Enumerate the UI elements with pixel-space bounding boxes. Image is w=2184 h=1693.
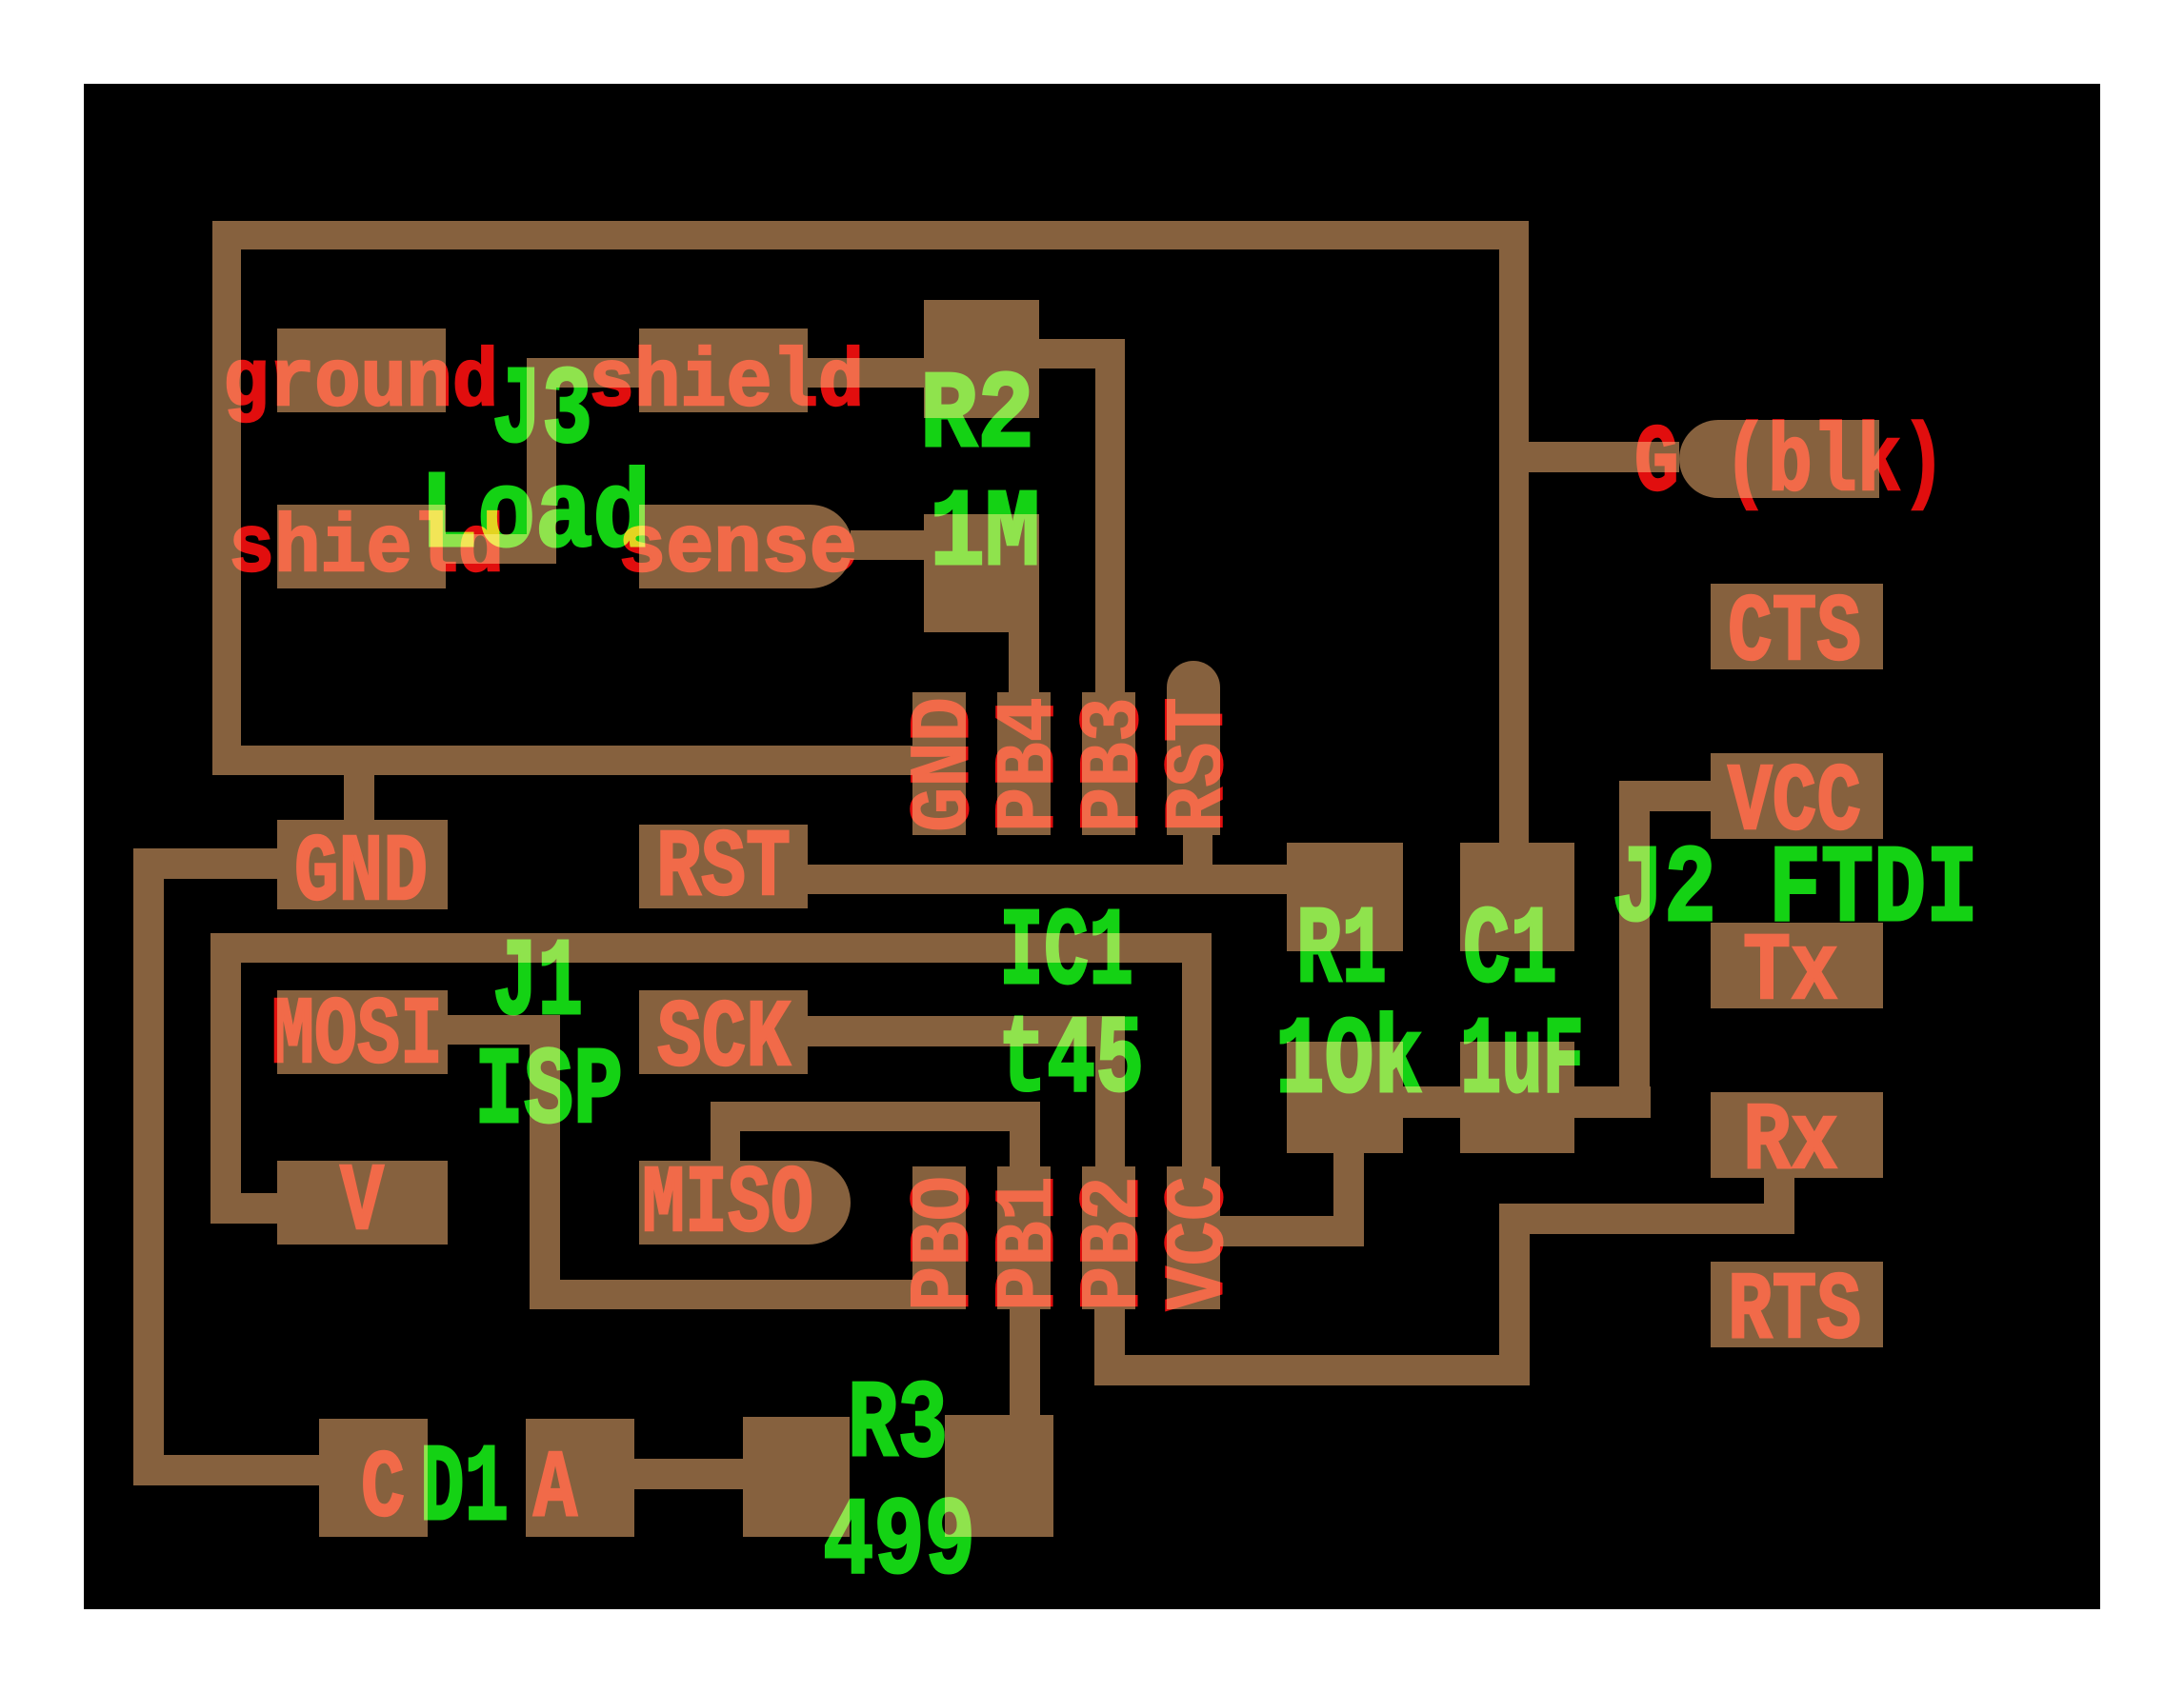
wire stub to J2 G pad [1529,442,1679,472]
svg-text:RTS: RTS [1728,1259,1861,1366]
pad J2 CTS [1711,584,1883,669]
wire PB2-Rx lower horizontal [1125,1355,1530,1385]
svg-text:R1: R1 [1296,889,1387,1014]
wire stub to J1 V pad [241,1193,277,1224]
pad J2 G (rounded left end) [1679,420,1879,498]
svg-text:Rx: Rx [1743,1089,1838,1197]
wire stub into J2 Rx pad [1764,1178,1794,1204]
wire V net horizontal [241,933,1212,963]
pad J1 V [277,1161,448,1245]
pad R3 right [945,1415,1053,1537]
pad J2 Rx [1711,1092,1883,1178]
pad J3 shield bottom [277,505,446,588]
svg-text:shield: shield [589,337,864,429]
wire stub MISO pad up [711,1131,740,1161]
pad J1 MOSI [277,990,448,1074]
wire MISO horizontal [711,1102,1040,1131]
wire stub GND bus to J1 GND pad [344,775,374,820]
svg-text:J2 FTDI: J2 FTDI [1612,828,1978,953]
svg-text:ground: ground [223,337,498,429]
pad IC1 pin GND [912,692,966,835]
svg-text:PB1: PB1 [982,1176,1079,1311]
svg-text:PB3: PB3 [1067,697,1164,832]
wire J3 shield vertical [527,388,556,564]
wire MOSI to IC1 PB0 [530,1280,912,1309]
wire vertical up to J2 VCC [1619,781,1650,1086]
svg-text:D1: D1 [420,1427,509,1552]
svg-text:ISP: ISP [474,1030,623,1155]
pad IC1 pin VCC [1167,1166,1220,1309]
wire GND to D1 vertical [133,848,164,1485]
svg-text:G (blk): G (blk) [1634,411,1946,519]
pad R1 top [1287,843,1403,951]
svg-text:sense: sense [618,503,857,595]
wire MISO down into IC1 PB1 [1010,1131,1040,1166]
svg-text:CTS: CTS [1728,581,1861,688]
pad J3 sense (oblong) [639,505,852,588]
pad R2 top [924,300,1039,418]
wire shield-ring left segment [212,249,241,775]
wire MOSI horizontal from pad [448,1015,560,1045]
svg-text:1uF: 1uF [1460,1000,1584,1125]
svg-text:J1: J1 [492,922,583,1046]
svg-text:GND: GND [897,697,994,832]
svg-text:MOSI: MOSI [271,984,443,1091]
pad J3 ground [277,329,446,412]
svg-text:V: V [340,1150,384,1258]
wire R1 bottom down [1333,1153,1364,1246]
wire PB2-Rx upper horizontal [1530,1204,1794,1234]
pad IC1 pin PB3 [1082,692,1135,835]
svg-text:499: 499 [823,1481,975,1605]
pad J2 Tx [1711,923,1883,1008]
svg-text:SCK: SCK [657,986,791,1094]
pad J3 shield top [639,329,808,412]
pad D1 A anode [526,1419,634,1537]
wire R1 bottom - C1 bottom - J2 VCC horizontal [1403,1086,1651,1118]
pad J2 RTS [1711,1262,1883,1347]
wire stub to J3 shield bottom pad [446,534,527,564]
svg-text:PBO: PBO [897,1176,994,1311]
wire SCK horizontal [808,1016,1125,1046]
wire V net down into IC1 VCC pin [1182,963,1212,1166]
svg-text:1Ok: 1Ok [1275,1000,1423,1125]
pad IC1 pin RST (rounded top) [1167,661,1220,835]
svg-text:t45: t45 [998,999,1144,1124]
wire J1 V vertical [210,933,241,1224]
wire SCK down into IC1 PB2 [1095,1046,1125,1166]
wire PB2-Rx vertical [1499,1204,1530,1355]
pad J1 RST [639,825,808,908]
pad IC1 pin PB1 [997,1166,1051,1309]
wire stub into J2 VCC pad [1650,781,1711,811]
svg-text:PB2: PB2 [1067,1176,1164,1311]
svg-text:Load: Load [420,454,651,579]
wire shield-ring right segment down to C1 [1499,249,1529,843]
pad IC1 pin PB2 [1082,1166,1135,1309]
svg-text:RST: RST [1152,697,1249,832]
pad J1 GND [277,820,448,909]
svg-text:R3: R3 [848,1364,948,1488]
wire J3 sense pad to R2 bottom pad [851,530,924,560]
svg-text:A: A [533,1437,578,1544]
pad IC1 pin PB4 [997,692,1051,835]
wire shield-ring top segment [212,221,1529,249]
pad C1 top [1460,843,1574,951]
wire into IC1 VCC pin right side [1220,1216,1364,1246]
wire IC1 PB1 down to R3 right pad [1010,1309,1040,1417]
svg-text:C1: C1 [1463,889,1557,1014]
wire stub IC1 RST pin down [1183,835,1212,865]
svg-text:IC1: IC1 [999,891,1133,1016]
svg-text:VCC: VCC [1152,1176,1249,1311]
pad R3 left [743,1417,850,1537]
wire vertical down to IC1 PB3 [1095,368,1125,692]
pad J2 VCC [1711,753,1883,839]
pad R1 bottom [1287,1042,1403,1153]
wire D1 A to R3 left pad [634,1459,743,1489]
wire R2 top pad to PB3 horizontal [1039,339,1125,368]
wire stub J1 GND pad left [164,848,277,879]
wire J3 shield horizontal to R2 top pad [527,358,924,388]
pad IC1 pin PB0 [912,1166,966,1309]
wire D1 C horizontal [133,1455,319,1485]
pad J1 MISO (oblong) [639,1161,851,1245]
svg-text:RST: RST [656,816,791,924]
svg-text:C: C [361,1437,405,1544]
wire R2 bottom pad down to IC1 PB4 [1009,632,1039,692]
svg-text:R2: R2 [920,354,1034,479]
svg-text:PB4: PB4 [982,697,1079,832]
svg-text:1M: 1M [930,472,1040,597]
svg-text:MISO: MISO [642,1152,813,1260]
pad D1 C cathode [319,1419,428,1537]
wire MOSI vertical [530,1045,560,1280]
pad R2 bottom [924,514,1039,632]
pad C1 bottom [1460,1042,1574,1153]
wire RST net horizontal J1 RST to R1 [808,865,1287,894]
wire IC1 PB2 stub down [1094,1309,1125,1385]
pad J1 SCK [639,990,808,1074]
wire GND bus bottom segment [212,746,912,775]
svg-text:GND: GND [294,821,428,928]
